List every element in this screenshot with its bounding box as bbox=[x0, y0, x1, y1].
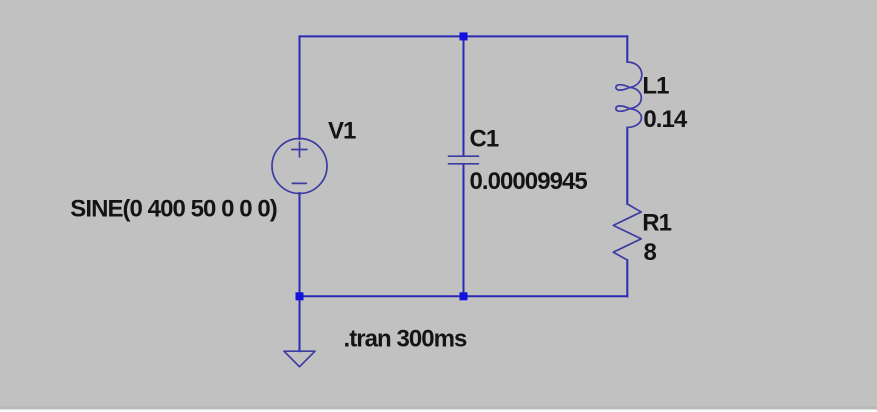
wire L1-R1 lead bbox=[626, 128, 628, 205]
svg-text:.tran 300ms: .tran 300ms bbox=[344, 326, 468, 353]
wire left vertical upper (to V1 top) bbox=[299, 36, 301, 139]
inductor L1 coil bbox=[616, 62, 642, 128]
wire lead below R1 bbox=[626, 260, 628, 296]
wire top rail bbox=[300, 35, 628, 37]
svg-text:0.14: 0.14 bbox=[643, 106, 688, 133]
svg-text:SINE(0 400 50 0 0 0): SINE(0 400 50 0 0 0) bbox=[70, 196, 276, 223]
svg-text:R1: R1 bbox=[642, 210, 671, 237]
resistor R1 zigzag bbox=[613, 204, 641, 260]
wire ground stub bbox=[299, 296, 301, 351]
wire C1 top lead bbox=[463, 36, 465, 156]
capacitor C1 plates bbox=[449, 156, 479, 164]
voltage source V1 circle bbox=[272, 139, 327, 194]
wire left vertical lower (V1 bottom to bottom rail) bbox=[299, 193, 301, 296]
wire bottom rail bbox=[300, 295, 628, 297]
ground symbol bbox=[284, 351, 315, 367]
svg-text:8: 8 bbox=[644, 239, 657, 266]
node junction top (C1/top rail) bbox=[460, 32, 468, 40]
V1 minus sign bbox=[292, 182, 306, 184]
V1 plus sign bbox=[292, 142, 307, 157]
svg-text:C1: C1 bbox=[470, 126, 499, 153]
node junction bottom (C1/bottom rail) bbox=[460, 292, 468, 300]
node junction bottom-left (V1/ground) bbox=[296, 292, 304, 300]
wire right lead above L1 bbox=[626, 36, 628, 62]
svg-text:0.00009945: 0.00009945 bbox=[470, 168, 588, 195]
wire C1 bottom lead bbox=[463, 164, 465, 296]
svg-text:V1: V1 bbox=[328, 118, 356, 145]
svg-text:L1: L1 bbox=[642, 73, 669, 100]
